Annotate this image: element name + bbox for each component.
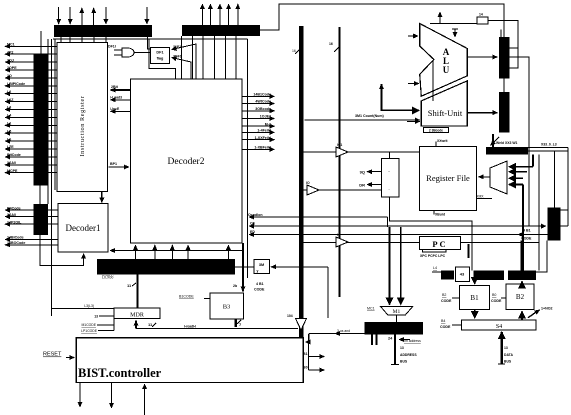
svg-text:B3: B3	[223, 304, 231, 311]
mux output arrow to RF	[479, 176, 491, 178]
ALU internal wire	[432, 60, 434, 101]
wire to Decoder1 bottom	[40, 235, 83, 265]
svg-text:2OJ: 2OJ	[7, 58, 14, 62]
svg-text:9Q: 9Q	[360, 170, 365, 175]
wire big-box left edge	[387, 217, 389, 227]
svg-text:Instruction Register: Instruction Register	[79, 96, 86, 157]
svg-text:B1: B1	[303, 352, 308, 356]
svg-text:IO: IO	[306, 181, 310, 185]
MDR left input 2	[99, 315, 114, 317]
arrow r-Load	[111, 99, 131, 101]
svg-text:B2: B2	[442, 293, 446, 297]
wire L1 loop	[488, 21, 518, 68]
svg-text:.: .	[388, 186, 389, 191]
svg-text:MC1: MC1	[7, 43, 15, 47]
svg-text:L6: L6	[7, 137, 11, 141]
bold stub right of PC	[468, 244, 470, 258]
wire jog into BIST	[306, 334, 310, 343]
svg-text:Weld XX3 W1: Weld XX3 W1	[496, 141, 518, 145]
bold address bus line	[394, 335, 396, 365]
bus bar LB2 (left lower black bar)	[34, 204, 49, 235]
svg-text:BIST.controller: BIST.controller	[78, 366, 162, 380]
svg-text:Decoder2: Decoder2	[168, 157, 205, 167]
MDR left input 1	[52, 308, 114, 310]
B1 box	[459, 285, 489, 309]
wire RA right to down bus	[509, 57, 529, 226]
svg-text:DR: DR	[359, 183, 365, 188]
svg-text:RESET: RESET	[43, 352, 62, 358]
svg-text:/-IncE: /-IncE	[110, 107, 120, 111]
small write bar WB (black)	[486, 147, 528, 155]
shift input stub	[407, 121, 420, 123]
B3 bottom tick	[234, 319, 236, 327]
svg-text:L5: L5	[7, 129, 11, 133]
wire DRSR down-right	[390, 197, 472, 270]
ladder verticals	[47, 39, 49, 204]
RF bottom tick	[433, 210, 435, 214]
svg-text:MDR: MDR	[130, 313, 144, 319]
wire stubs below TB1	[61, 37, 106, 42]
register bar RC (black)	[548, 207, 561, 240]
arrowhead into BARC y226	[529, 225, 546, 227]
svg-text:XBurd: XBurd	[435, 213, 445, 217]
svg-text:IC1: IC1	[337, 143, 342, 147]
MDR lower-left wires	[113, 319, 115, 331]
S4 box	[461, 320, 536, 330]
wire mux in1 vertical	[532, 155, 534, 167]
ALU clock down arrow	[454, 29, 456, 37]
svg-text:1OJE3: 1OJE3	[260, 115, 271, 119]
svg-text:3M: 3M	[259, 263, 264, 267]
svg-text:2 3Bcode: 2 3Bcode	[429, 129, 443, 133]
svg-text:104: 104	[287, 314, 293, 318]
Decoder2 output signals right	[242, 93, 275, 150]
svg-text:S4: S4	[496, 324, 502, 330]
wire RA top stub	[500, 30, 502, 38]
diag arrow into WB	[491, 137, 500, 146]
svg-text:L1: L1	[7, 122, 11, 126]
svg-text:B0: B0	[303, 366, 308, 370]
DR SR box	[381, 158, 399, 197]
main vertical bus V1 (black)	[299, 26, 304, 339]
Register File box	[419, 146, 476, 210]
bold wire RC down to EB2 bar	[521, 241, 523, 271]
svg-text:4WtCode: 4WtCode	[255, 100, 271, 104]
svg-text:OE: OE	[250, 222, 256, 226]
svg-text:IC: IC	[337, 233, 341, 237]
svg-text:43: 43	[460, 272, 465, 277]
bus bar TB1 (top-left register bar)	[54, 25, 152, 37]
wire RB bottom	[492, 134, 494, 147]
address bar AB (black)	[364, 322, 423, 335]
svg-text:XXwrit: XXwrit	[437, 139, 448, 143]
arrows above TB1	[59, 7, 147, 25]
wire 3usand	[335, 333, 364, 335]
ALU top wire to L1	[430, 23, 477, 25]
wire TB1 to DF1 box	[147, 36, 150, 49]
arrow IR to Decoder1	[101, 192, 103, 203]
svg-text:1-XXFeild: 1-XXFeild	[255, 136, 271, 140]
svg-text:13: 13	[94, 315, 98, 319]
PC box	[420, 237, 461, 250]
wires TB2 to Decoder2 top	[181, 36, 236, 79]
buffer IC1a	[336, 147, 348, 157]
shift output arrow to RB	[467, 112, 497, 114]
wire 31F1	[172, 44, 197, 79]
wire x568 down	[567, 148, 569, 227]
wire bus to 3M box	[235, 266, 254, 268]
svg-text:/-Load3: /-Load3	[110, 95, 122, 99]
svg-text:X6A0: X6A0	[7, 213, 16, 217]
wire TB2 to top-right	[260, 4, 504, 37]
svg-text:DATA: DATA	[504, 353, 513, 357]
Shift-Unit shape	[421, 81, 467, 126]
svg-text:L2: L2	[7, 90, 11, 94]
bold wire bus to MDR	[136, 274, 138, 308]
BIST right outputs B1 B0	[308, 334, 310, 370]
ALU shape	[420, 24, 468, 97]
mux inputs	[509, 166, 533, 168]
svg-text:X6A0: X6A0	[7, 161, 16, 165]
3M box	[254, 259, 269, 273]
register bar RB (black)	[499, 92, 510, 133]
svg-text:MCPE: MCPE	[7, 169, 18, 173]
ALU output arrow to RA	[467, 56, 497, 58]
svg-text:2O: 2O	[7, 74, 12, 78]
and gate inputs	[114, 49, 122, 51]
svg-text:4 B1: 4 B1	[523, 228, 531, 232]
svg-text:Register File: Register File	[426, 173, 470, 183]
arrowhead mid y234	[518, 234, 540, 236]
svg-text:B4Code: B4Code	[7, 206, 21, 210]
main bus bar MB (black)	[97, 259, 235, 274]
wire connecting LB1-LB2	[39, 186, 41, 204]
buffer IC4 triangle	[296, 319, 307, 331]
RF top tick	[435, 142, 437, 147]
svg-text:MC1: MC1	[367, 307, 375, 311]
wire ctl y234	[249, 234, 548, 236]
svg-text:3OBcode: 3OBcode	[255, 107, 271, 111]
mux M2	[490, 161, 507, 194]
arrow 2Bit into IR	[111, 89, 131, 91]
arrow DR	[367, 184, 381, 186]
svg-text:M-2: M-2	[265, 122, 271, 126]
B3 box	[210, 293, 244, 319]
svg-text:PC: PC	[432, 239, 447, 249]
svg-text:BitCode: BitCode	[7, 153, 21, 157]
ALU flag up arrow	[439, 12, 441, 24]
svg-text:16: 16	[329, 42, 333, 46]
svg-text:B1CODE: B1CODE	[179, 295, 194, 299]
svg-text:CODE: CODE	[254, 288, 265, 292]
stubs below AB	[371, 335, 373, 346]
svg-text:13: 13	[400, 346, 404, 350]
svg-text:B2: B2	[516, 293, 525, 301]
svg-text:1-XBFeild: 1-XBFeild	[254, 146, 271, 150]
shift input L-wire	[382, 85, 420, 111]
DF1 flag box	[151, 48, 170, 64]
left signal rows group1	[5, 43, 57, 173]
wire ctl y226	[249, 225, 546, 227]
buffer IC1b	[336, 237, 348, 247]
svg-text:L3(L3): L3(L3)	[84, 304, 94, 308]
svg-text:B1: B1	[470, 294, 479, 302]
wires WB right X33	[528, 147, 568, 149]
register bar RA (black)	[499, 37, 510, 79]
svg-text:L0,X00: L0,X00	[102, 276, 113, 280]
svg-text:M1: M1	[393, 309, 401, 315]
pipe bar P3 (black)	[508, 270, 536, 280]
instruction register box	[57, 42, 107, 191]
bold wire x523 down to EB2	[522, 185, 524, 271]
shift count wire	[305, 119, 420, 121]
wire gate output	[134, 52, 151, 54]
svg-text:1+NO2: 1+NO2	[541, 307, 553, 311]
svg-text:14B1Code: 14B1Code	[253, 93, 271, 97]
arrow Im address	[399, 339, 410, 341]
bold arrow P2 to B1	[474, 280, 476, 284]
left vertical feed wire	[40, 31, 42, 54]
Decoder1 box	[58, 204, 108, 252]
box 43	[455, 267, 469, 281]
ALU input stub B	[408, 83, 419, 85]
PC sub box	[423, 250, 446, 253]
arrow 9Q	[367, 171, 381, 173]
Decoder2 box	[131, 79, 243, 243]
wire x328 down	[327, 267, 329, 318]
svg-text:BUS: BUS	[400, 360, 408, 364]
svg-text:L3: L3	[7, 106, 11, 110]
mux M1	[381, 306, 413, 314]
DRSR top tick	[389, 152, 391, 158]
arrows above TB2	[202, 4, 237, 25]
svg-text:Shift-Unit: Shift-Unit	[428, 108, 463, 118]
wire P3 right up	[536, 241, 547, 272]
svg-text:B4: B4	[441, 319, 445, 323]
svg-text:ADDRESS: ADDRESS	[400, 353, 417, 357]
BIST controller box	[76, 338, 303, 383]
wire PC right	[461, 242, 540, 244]
bus width mark 16 V2	[334, 46, 340, 52]
svg-text:DF1I: DF1I	[108, 45, 116, 49]
svg-text:L1Z: L1Z	[7, 98, 14, 102]
wire L-shape to Decoder2 top	[149, 39, 176, 79]
bold arrow B2 up	[521, 282, 523, 285]
wire RA-RB connector	[503, 79, 505, 93]
bold arrow B1 to S4	[474, 310, 476, 318]
svg-text:14BOCode: 14BOCode	[7, 241, 25, 245]
svg-text:I-readH: I-readH	[184, 325, 196, 329]
svg-text:14BiCode: 14BiCode	[7, 236, 24, 240]
svg-text:4P2: 4P2	[7, 50, 13, 54]
svg-text:Ocudlon: Ocudlon	[248, 213, 263, 217]
svg-text:13: 13	[504, 346, 508, 350]
svg-text:U: U	[443, 65, 450, 75]
arrow BP1 to Decoder2	[109, 166, 130, 168]
B2 box	[506, 284, 534, 310]
svg-text:flag: flag	[157, 57, 164, 61]
svg-text:RMX: RMX	[476, 195, 484, 199]
svg-text:BP1: BP1	[110, 162, 117, 166]
svg-text:2OPE: 2OPE	[7, 66, 17, 70]
wire x554 down to BARC	[554, 151, 556, 207]
svg-text:ED: ED	[250, 230, 255, 234]
svg-text:3 us and: 3 us and	[337, 329, 350, 333]
bus bar LB1 (left upper black bar)	[34, 54, 49, 185]
wire I-readH	[136, 328, 298, 330]
bold arrow into MDR bottom	[135, 321, 137, 329]
bold arrow data bus to S4	[501, 332, 503, 364]
pipe bar P1 (black)	[441, 270, 454, 279]
M1 output	[396, 315, 398, 322]
svg-text:L4: L4	[433, 266, 437, 270]
wire ctl y217	[249, 216, 388, 218]
svg-text:16: 16	[292, 49, 296, 53]
wire bus to RF	[303, 151, 419, 153]
svg-text:y: y	[257, 269, 259, 273]
svg-text:LP1CODE: LP1CODE	[81, 329, 98, 333]
wire bus to PC	[303, 242, 420, 244]
bold arrow S4 to B2	[521, 312, 523, 321]
bus width mark 16 V1	[295, 48, 301, 54]
pipe bar P2 (black)	[474, 270, 505, 280]
svg-text:3M1 Count(Num): 3M1 Count(Num)	[355, 114, 385, 118]
bold arrows into M1	[388, 227, 390, 305]
bold wire Decoder2 corner to B3	[242, 243, 244, 292]
svg-text:1-4Feild: 1-4Feild	[257, 129, 271, 133]
arrow r-IncE	[111, 110, 131, 112]
wire horizontal y39	[53, 38, 247, 40]
ALU input stub A	[408, 35, 418, 37]
svg-text:X33_0_L3: X33_0_L3	[541, 143, 557, 147]
svg-text:Decoder1: Decoder1	[66, 223, 101, 233]
buffer IO	[307, 185, 319, 195]
svg-text:L4: L4	[7, 114, 11, 118]
bus bar TB2 (top instruction bar)	[182, 25, 260, 36]
svg-text:CODE: CODE	[441, 299, 452, 303]
svg-text:4 B1: 4 B1	[256, 282, 264, 286]
2Bitcode label box	[424, 128, 449, 133]
arrow into Decoder1 right	[110, 250, 243, 252]
svg-text:14: 14	[479, 13, 483, 17]
svg-text:CODE: CODE	[440, 325, 451, 329]
L1 box	[477, 17, 488, 24]
wire 3DF1	[172, 58, 192, 80]
svg-text:B0: B0	[492, 293, 496, 297]
svg-text:2Bit: 2Bit	[111, 85, 119, 89]
wire right vertical x247	[246, 39, 248, 278]
BIST bottom arrows	[79, 383, 81, 408]
vertical bus V2	[339, 27, 341, 297]
wires RC right	[561, 209, 569, 211]
svg-text:L7E: L7E	[7, 145, 14, 149]
arrows bus to Decoder2	[136, 245, 229, 259]
diag arrow 1+NO2	[528, 310, 540, 318]
arrow into 3M box	[271, 266, 328, 268]
svg-text:LBIPICode: LBIPICode	[7, 82, 25, 86]
left signal rows group2	[5, 206, 58, 245]
and gate G1	[122, 48, 134, 57]
svg-text:XPC PCPC LPC: XPC PCPC LPC	[420, 254, 446, 258]
MDR box	[114, 308, 160, 319]
svg-text:14P2OIL: 14P2OIL	[7, 220, 22, 224]
svg-text:DF1: DF1	[156, 51, 163, 55]
svg-text:Im address: Im address	[404, 339, 421, 343]
svg-text:BUS: BUS	[504, 360, 512, 364]
wire x539 down	[538, 155, 540, 271]
wire bus to DRSR	[303, 189, 381, 191]
svg-text:CODE: CODE	[491, 299, 502, 303]
svg-text:M1CODE: M1CODE	[81, 323, 96, 327]
